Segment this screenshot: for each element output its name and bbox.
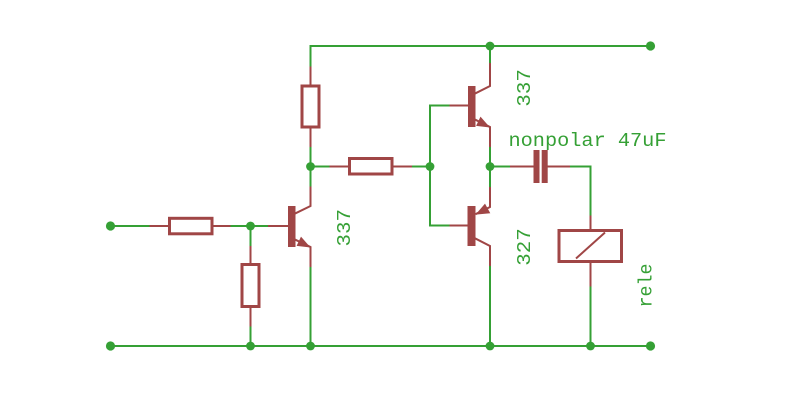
node endpoint top rail right	[646, 41, 655, 50]
svg-text:337: 337	[334, 209, 356, 247]
wire R3 bottom to node	[310, 147, 312, 167]
transistor Q3 PNP 327	[450, 187, 491, 266]
svg-text:327: 327	[514, 228, 536, 266]
node junction base bus	[426, 162, 435, 171]
wire C1 right to corner	[570, 166, 591, 168]
svg-text:337: 337	[514, 69, 536, 107]
wire bottom ground rail	[111, 345, 651, 347]
wire Q2 collector to top rail	[489, 46, 491, 63]
node endpoint input	[106, 221, 115, 230]
resistor R3 collector load vertical	[302, 67, 319, 148]
node junction R2 ground	[246, 342, 255, 351]
node endpoint ground right	[646, 341, 655, 350]
resistor R1 input horizontal	[150, 218, 231, 234]
node junction Q1 emitter ground	[306, 342, 315, 351]
svg-text:rele: rele	[636, 264, 658, 308]
svg-text:nonpolar 47uF: nonpolar 47uF	[509, 130, 667, 152]
wire node to Q1 base	[251, 225, 269, 227]
wire output node to C1 left	[490, 166, 510, 168]
wire node to R4 left	[311, 166, 330, 168]
wire Q2 emitter to output node	[489, 147, 491, 167]
node junction input/R2	[246, 222, 255, 231]
wire R4 right to base bus	[412, 166, 430, 168]
capacitor C1 nonpolar 47uF	[510, 150, 570, 183]
wire R1 right to node	[231, 225, 251, 227]
wire base bus vertical	[429, 106, 431, 226]
wire node down to R2 top	[250, 226, 252, 246]
wire Q3 collector to ground rail	[489, 266, 491, 346]
node endpoint ground left	[106, 341, 115, 350]
node junction Q2 collector top rail	[486, 42, 495, 51]
wire Q1 collector to node	[310, 167, 312, 187]
wire Q1 emitter to ground rail	[310, 267, 312, 346]
resistor R2 base divider vertical	[242, 246, 259, 327]
wire base bus to Q3 base	[429, 225, 450, 227]
relay K1 coil	[559, 216, 622, 287]
node junction Q3 collector ground	[486, 342, 495, 351]
wire top rail V+	[311, 45, 651, 47]
wire input left	[111, 225, 150, 227]
node junction R3/R4/Q1-collector	[306, 162, 315, 171]
node junction output	[486, 162, 495, 171]
wire base bus to Q2 base	[429, 105, 450, 107]
wire Q3 emitter to output node	[489, 167, 491, 188]
resistor R4 base drive horizontal	[330, 159, 413, 175]
wire top rail left drop	[310, 45, 312, 67]
wire corner down to relay top	[590, 166, 592, 216]
transistor Q2 NPN 337	[450, 63, 491, 147]
wire R2 bottom to ground rail	[250, 327, 252, 347]
wire relay bottom to ground rail	[590, 287, 592, 347]
node junction relay ground	[586, 342, 595, 351]
transistor Q1 NPN 337	[268, 187, 311, 268]
